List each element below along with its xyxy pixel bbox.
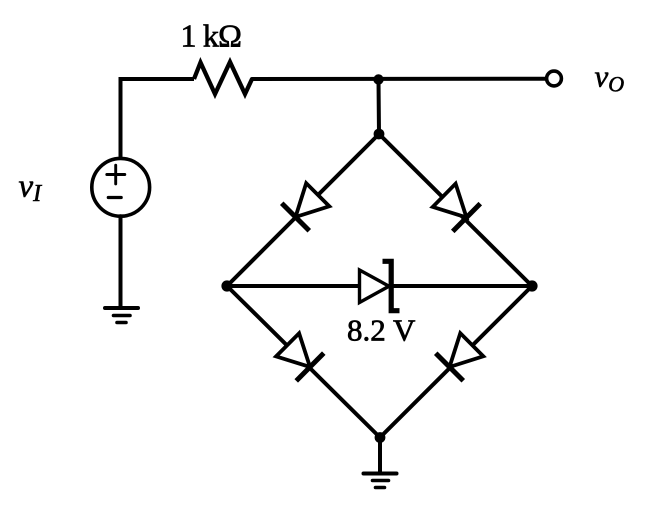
voltage source vI (circle with + -)	[92, 158, 150, 216]
wire: bridge bottom to ground	[378, 438, 382, 474]
node: bridge bottom (dot)	[375, 432, 386, 443]
wire: bridge top-right branch	[379, 134, 532, 286]
wire: left vertical from top corner to source	[121, 79, 195, 158]
diode D2 (top-right arm)	[433, 184, 479, 230]
node: bridge right (dot)	[526, 280, 537, 291]
wire: source to ground	[119, 216, 123, 307]
node: junction of output wire and bridge (dot)	[373, 74, 383, 84]
label: 8.2 V	[347, 313, 416, 348]
wire: bridge bottom-right branch	[380, 286, 532, 438]
wire: bridge top-left branch	[227, 134, 379, 286]
ground: below source	[105, 308, 138, 323]
svg-text:1 kΩ: 1 kΩ	[181, 18, 242, 54]
wire: top horizontal right segment to output	[252, 77, 546, 81]
node: bridge left (dot)	[221, 280, 232, 291]
wire: vertical from output wire down to bridge top	[377, 80, 382, 135]
wire: bridge bottom-left branch	[227, 286, 380, 438]
label: 1 kOhm value	[181, 18, 242, 54]
diode D1 (top-left arm)	[284, 183, 330, 229]
ground: below bridge	[364, 474, 397, 488]
zener diode DZ 8.2 V (middle branch)	[360, 261, 400, 310]
diode D4 (bottom-right arm)	[438, 333, 484, 379]
label: vO	[595, 59, 625, 97]
wire: bridge middle horizontal branch	[227, 284, 532, 288]
label: vI	[19, 169, 43, 208]
svg-text:8.2 V: 8.2 V	[347, 313, 416, 348]
resistor R1 1 kOhm	[194, 62, 252, 94]
output terminal vO (open circle)	[547, 71, 562, 86]
node: bridge top (dot)	[374, 129, 385, 140]
diode D3 (bottom-left arm)	[276, 333, 322, 379]
